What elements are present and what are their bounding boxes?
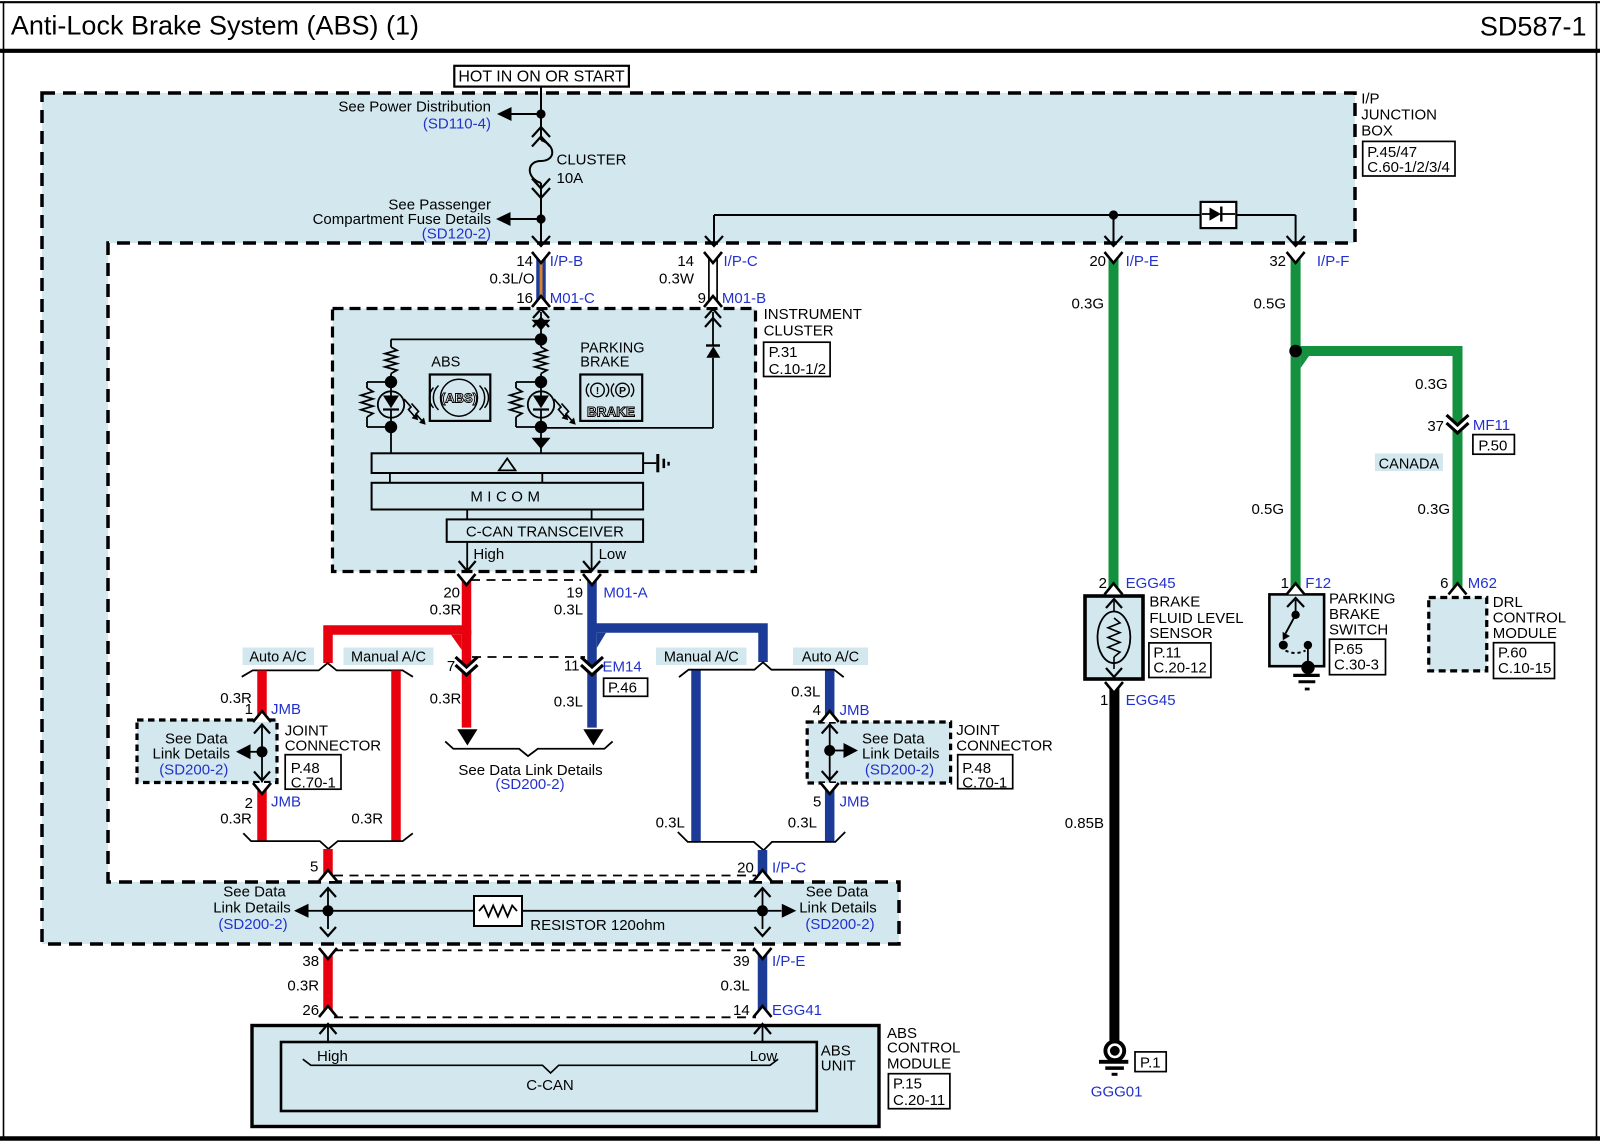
arrow into connector I/P-B bbox=[532, 236, 550, 246]
wire parking lamp drop bbox=[540, 339, 542, 347]
connector 14 EGG41 notch bbox=[754, 1006, 772, 1017]
sensor resistor ellipse bbox=[1098, 612, 1131, 664]
abs lamp rays bbox=[404, 399, 416, 418]
LED abs indicator bbox=[378, 391, 404, 417]
svg-text:11: 11 bbox=[564, 658, 580, 675]
micom to ccan legs bbox=[466, 510, 468, 520]
svg-text:2: 2 bbox=[1099, 575, 1107, 592]
connector 20 I/P-C notch bottom bbox=[754, 870, 772, 881]
svg-text:SWITCH: SWITCH bbox=[1329, 622, 1388, 639]
connector 4 JMB notch bbox=[821, 711, 839, 722]
wire 0.3L manual branch bbox=[691, 671, 701, 842]
svg-text:6: 6 bbox=[1440, 575, 1448, 592]
svg-text:0.3R: 0.3R bbox=[430, 601, 462, 618]
svg-text:39: 39 bbox=[733, 953, 750, 970]
svg-text:JMB: JMB bbox=[840, 794, 870, 811]
JMB right arrow line bbox=[834, 750, 844, 752]
parking parallel resistor branch bbox=[516, 381, 537, 383]
node fuse top junction bbox=[536, 109, 545, 118]
svg-text:20: 20 bbox=[443, 584, 460, 601]
HOT IN ON OR START box bbox=[454, 66, 629, 87]
BRAKE telltale emblem bbox=[591, 383, 605, 397]
wire diode to parking node bbox=[712, 358, 714, 428]
wire 0.3R manual branch bbox=[391, 671, 401, 842]
sensor resistor element bbox=[1108, 618, 1120, 657]
svg-text:C.60-1/2/3/4: C.60-1/2/3/4 bbox=[1367, 159, 1450, 176]
connector plane EM14 bbox=[472, 656, 585, 658]
terminating resistor net line bbox=[328, 910, 763, 912]
svg-text:(SD200-2): (SD200-2) bbox=[865, 761, 934, 778]
svg-text:BRAKE: BRAKE bbox=[580, 355, 629, 371]
switch ground stud bbox=[1301, 661, 1314, 674]
wire drop to I/P-F bbox=[1295, 215, 1297, 244]
right see-data arrow bbox=[782, 904, 797, 918]
Auto A/C label right bbox=[793, 648, 868, 666]
svg-text:DRL: DRL bbox=[1493, 594, 1523, 611]
svg-text:INSTRUMENT: INSTRUMENT bbox=[764, 306, 862, 323]
wire cluster lamp bus bbox=[391, 338, 541, 340]
wire 0.3G I/P-E to EGG45 bbox=[1109, 252, 1119, 594]
svg-text:0.3W: 0.3W bbox=[659, 271, 695, 288]
JMB left arrow line bbox=[250, 751, 258, 753]
data link underbrace bbox=[445, 741, 612, 756]
svg-text:2: 2 bbox=[245, 795, 253, 812]
svg-text:CONTROL: CONTROL bbox=[1493, 610, 1566, 627]
svg-text:C.20-11: C.20-11 bbox=[893, 1092, 945, 1109]
wire 0.5G I/P-F to F12 bbox=[1291, 252, 1301, 594]
svg-text:0.3L: 0.3L bbox=[554, 601, 583, 618]
connector 14 I/P-B notch bbox=[532, 252, 550, 263]
svg-text:Link Details: Link Details bbox=[862, 745, 940, 762]
sensor internal top arrow bbox=[1106, 599, 1122, 608]
connector 1 F12 notch bbox=[1287, 583, 1305, 594]
svg-text:0.3L: 0.3L bbox=[788, 815, 817, 832]
ground GGG01 symbol bbox=[1105, 1041, 1124, 1060]
diode D1 box bbox=[1201, 202, 1237, 228]
svg-text:CLUSTER: CLUSTER bbox=[557, 152, 627, 169]
JMB left exit chevron bbox=[254, 772, 270, 781]
svg-text:4: 4 bbox=[813, 702, 821, 719]
BRAKE telltale box bbox=[580, 375, 642, 421]
left JMB ref box bbox=[285, 755, 341, 790]
svg-text:Link Details: Link Details bbox=[799, 899, 877, 916]
resistor abs lamp bbox=[385, 347, 397, 374]
wire parking resistor to led bbox=[540, 374, 542, 383]
connector 11 EM14 inline bbox=[581, 657, 603, 675]
JMB right exit chevron bbox=[822, 771, 838, 780]
wire parking led down bbox=[540, 427, 542, 438]
svg-text:(SD200-2): (SD200-2) bbox=[495, 776, 564, 793]
svg-text:CONNECTOR: CONNECTOR bbox=[956, 738, 1053, 755]
wire drop to I/P-E bbox=[1113, 215, 1115, 244]
red option merge bracket bbox=[243, 833, 412, 849]
wire 0.3R auto branch to JMB1 bbox=[257, 671, 267, 723]
wire fuse output down to I/P-B bbox=[540, 223, 542, 244]
svg-text:M01-C: M01-C bbox=[550, 290, 595, 307]
svg-text:BRAKE: BRAKE bbox=[587, 405, 635, 420]
svg-text:EGG41: EGG41 bbox=[772, 1002, 822, 1019]
wire 0.3W I/P-C to M01-B (white) bbox=[709, 252, 717, 307]
ABS control module outer box bbox=[252, 1026, 879, 1127]
blue data link arrow bbox=[583, 729, 603, 745]
DRL control module box bbox=[1429, 598, 1487, 671]
svg-text:See Power Distribution: See Power Distribution bbox=[338, 98, 491, 115]
ABS unit inner box bbox=[281, 1042, 817, 1111]
fuse bottom clip chevrons bbox=[532, 179, 550, 189]
JMB joint internal wire right bbox=[829, 724, 831, 782]
page top border bbox=[0, 1, 1600, 3]
ABS module entry arrow right bbox=[754, 1024, 771, 1034]
blue option split bracket bbox=[679, 662, 844, 677]
connector 2 JMB notch bbox=[253, 783, 271, 794]
resistor bar up arrow right bbox=[755, 888, 771, 897]
JMB left entry chevron bbox=[254, 725, 270, 734]
connector 5 JMB notch bbox=[821, 783, 839, 794]
wire 0.3R to connector 7 bbox=[462, 630, 472, 666]
svg-text:EM14: EM14 bbox=[603, 659, 642, 676]
wire ccan Low out bbox=[591, 542, 593, 569]
wire abs lamp drop bbox=[390, 339, 392, 347]
connector 6 M62 notch bbox=[1449, 583, 1467, 594]
connector 16 M01-C notch bbox=[532, 296, 550, 307]
JMB right arrow bbox=[844, 743, 859, 758]
connector 14 I/P-C notch bbox=[704, 252, 722, 263]
svg-text:P: P bbox=[619, 385, 626, 397]
switch closed contact bbox=[1304, 641, 1312, 649]
switch internal top arrow bbox=[1287, 598, 1304, 607]
IP junction box ref box bbox=[1363, 141, 1455, 176]
svg-text:Link Details: Link Details bbox=[213, 899, 291, 916]
ABS telltale emblem bbox=[441, 379, 478, 416]
svg-text:14: 14 bbox=[677, 253, 694, 270]
switch ref box bbox=[1330, 639, 1386, 675]
connector 5 notch bbox=[319, 870, 337, 881]
node JMB left junction bbox=[257, 746, 268, 757]
svg-text:CONNECTOR: CONNECTOR bbox=[285, 737, 382, 754]
wire 0.3L merged to connector 20 bbox=[758, 850, 768, 881]
svg-text:ABS: ABS bbox=[431, 354, 460, 370]
connector 32 I/P-F notch bbox=[1287, 252, 1305, 263]
cluster ref box bbox=[764, 342, 831, 376]
connector 2 EGG45 notch bbox=[1105, 583, 1123, 594]
svg-text:EGG45: EGG45 bbox=[1126, 692, 1176, 709]
svg-text:PARKING: PARKING bbox=[1329, 591, 1395, 608]
svg-text:C-CAN TRANSCEIVER: C-CAN TRANSCEIVER bbox=[466, 523, 624, 540]
wire 0.85B EGG45 to GGG01 bbox=[1109, 682, 1119, 1042]
parking brake switch box bbox=[1269, 594, 1324, 666]
brake fluid level sensor box bbox=[1085, 596, 1143, 679]
LED parking indicator bbox=[528, 391, 554, 417]
svg-text:C.10-15: C.10-15 bbox=[1498, 660, 1551, 677]
svg-text:MICOM: MICOM bbox=[470, 488, 544, 505]
wire M01-B to diode bbox=[712, 312, 714, 346]
wire 0.3L auto branch to JMB4 bbox=[825, 671, 835, 723]
node green branch junction bbox=[1289, 345, 1302, 358]
node parking led bottom bbox=[535, 421, 547, 433]
svg-text:10A: 10A bbox=[557, 170, 584, 187]
ground parking brake switch bbox=[1293, 674, 1320, 677]
fuse bottom lead bbox=[540, 183, 542, 215]
module ref box bbox=[888, 1074, 950, 1109]
node cluster feed split bbox=[535, 333, 547, 345]
red tee fillet bbox=[451, 635, 462, 650]
svg-text:0.3R: 0.3R bbox=[351, 811, 383, 828]
node I/P-E branch junction bbox=[1109, 210, 1118, 219]
svg-text:7: 7 bbox=[447, 658, 455, 675]
resistor abs parallel bbox=[361, 388, 373, 417]
svg-text:See Data: See Data bbox=[806, 883, 869, 900]
svg-text:P.50: P.50 bbox=[1478, 438, 1507, 455]
connector 1 EGG45 notch black wire bbox=[1105, 682, 1123, 693]
wire 0.3L branch to auto-manual bbox=[592, 628, 763, 662]
wire to see-power-distribution bbox=[511, 113, 537, 115]
resistor parking lamp bbox=[535, 347, 547, 374]
parking lamp rays bbox=[554, 399, 566, 418]
svg-text:BOX: BOX bbox=[1361, 122, 1393, 139]
page left border bbox=[3, 3, 5, 1139]
P.50 ref box bbox=[1473, 435, 1515, 455]
svg-text:1: 1 bbox=[1281, 575, 1289, 592]
svg-text:0.85B: 0.85B bbox=[1065, 815, 1104, 832]
connector 20 M01-A red notch bbox=[458, 574, 476, 585]
svg-text:M62: M62 bbox=[1468, 575, 1497, 592]
cluster entry arrow M01-C bbox=[533, 309, 549, 318]
svg-text:0.3R: 0.3R bbox=[220, 811, 252, 828]
wire 0.3L/O I/P-B to M01-C (blue) bbox=[536, 252, 546, 307]
svg-text:(SD200-2): (SD200-2) bbox=[805, 916, 874, 933]
svg-text:F12: F12 bbox=[1305, 575, 1331, 592]
node resistor right bbox=[757, 905, 768, 916]
node JMB right junction bbox=[824, 745, 835, 756]
wire 0.3L 11 to data link arrow bbox=[587, 664, 597, 728]
right joint connector detail box bbox=[807, 722, 950, 783]
svg-text:14: 14 bbox=[733, 1002, 750, 1019]
JMB left arrow bbox=[236, 744, 251, 759]
svg-text:I/P-F: I/P-F bbox=[1317, 253, 1350, 270]
resistor bar down arrow left bbox=[327, 916, 329, 929]
svg-text:0.5G: 0.5G bbox=[1253, 296, 1286, 313]
fuse top clip chevrons bbox=[532, 127, 550, 137]
svg-text:0.3L: 0.3L bbox=[554, 693, 583, 710]
connector 7 inline bbox=[456, 657, 478, 675]
connector 39 I/P-E notch bbox=[754, 948, 772, 959]
connector plane M01-A bbox=[471, 579, 581, 581]
svg-text:C.20-12: C.20-12 bbox=[1153, 660, 1206, 677]
svg-text:P.65: P.65 bbox=[1334, 641, 1363, 658]
parking to micom triangle bbox=[532, 438, 551, 449]
svg-text:P.1: P.1 bbox=[1140, 1055, 1161, 1072]
wire 0.3R 38 to 26 bbox=[323, 948, 333, 1017]
page right border bbox=[1596, 3, 1598, 1139]
resistor bar down arrow right bbox=[762, 916, 764, 929]
svg-text:M01-A: M01-A bbox=[603, 584, 647, 601]
svg-text:0.3G: 0.3G bbox=[1415, 376, 1448, 393]
switch pivot contact bbox=[1291, 611, 1299, 619]
resistor left arrow line bbox=[308, 910, 323, 912]
svg-text:20: 20 bbox=[1089, 253, 1106, 270]
connector 9 M01-B notch bbox=[704, 296, 722, 307]
wire internal bus bbox=[714, 214, 1296, 216]
wire drop to I/P-C bbox=[713, 215, 715, 244]
resistor right arrow line bbox=[768, 910, 782, 912]
diode D2 cluster bbox=[706, 344, 720, 346]
svg-text:20: 20 bbox=[737, 860, 754, 877]
cluster entry arrow M01-B bbox=[705, 309, 721, 318]
blue tee fillet bbox=[597, 633, 606, 648]
wire 0.3L cluster Low branch bbox=[587, 574, 597, 666]
svg-text:(SD120-2): (SD120-2) bbox=[422, 226, 491, 243]
switch blade bbox=[1286, 615, 1296, 634]
svg-text:1: 1 bbox=[1100, 692, 1108, 709]
svg-text:0.5G: 0.5G bbox=[1251, 501, 1284, 518]
svg-text:0.3R: 0.3R bbox=[287, 978, 319, 995]
svg-text:C.70-1: C.70-1 bbox=[291, 774, 336, 791]
green branch fillet bbox=[1301, 356, 1309, 368]
svg-text:BRAKE: BRAKE bbox=[1149, 594, 1200, 611]
svg-text:1: 1 bbox=[245, 701, 253, 718]
switch throw dashed arc bbox=[1286, 651, 1306, 654]
connector 26 notch bbox=[319, 1006, 337, 1017]
svg-text:0.3L: 0.3L bbox=[791, 684, 820, 701]
svg-text:0.3L: 0.3L bbox=[656, 815, 685, 832]
blue option merge bracket bbox=[678, 832, 845, 850]
JMB right entry chevron bbox=[822, 725, 838, 734]
svg-text:Link Details: Link Details bbox=[153, 745, 231, 762]
svg-text:(ABS): (ABS) bbox=[441, 391, 477, 406]
svg-text:See Data: See Data bbox=[223, 883, 286, 900]
svg-text:MF11: MF11 bbox=[1473, 417, 1510, 434]
svg-text:JMB: JMB bbox=[840, 702, 870, 719]
C-CAN brace bbox=[303, 1059, 778, 1073]
svg-text:Manual A/C: Manual A/C bbox=[664, 649, 739, 665]
svg-text:SD587-1: SD587-1 bbox=[1480, 12, 1587, 42]
ABS module entry arrow left bbox=[320, 1024, 337, 1034]
svg-text:19: 19 bbox=[566, 584, 583, 601]
svg-text:I/P-B: I/P-B bbox=[550, 253, 583, 270]
svg-text:JMB: JMB bbox=[271, 701, 301, 718]
arrow into connector I/P-F bbox=[1287, 236, 1305, 246]
svg-text:0.3L: 0.3L bbox=[720, 978, 749, 995]
Manual A/C label left bbox=[344, 648, 434, 666]
svg-text:RESISTOR 120ohm: RESISTOR 120ohm bbox=[530, 917, 665, 934]
fuse element squiggle bbox=[530, 140, 553, 183]
instrument cluster box bbox=[333, 309, 756, 572]
resistor bar up arrow left bbox=[320, 888, 336, 897]
svg-text:Auto A/C: Auto A/C bbox=[802, 649, 859, 665]
wire to passenger fuse details bbox=[510, 218, 537, 220]
svg-text:0.3L/O: 0.3L/O bbox=[489, 271, 534, 288]
title separator thick line bbox=[0, 49, 1600, 53]
left joint connector detail box bbox=[137, 720, 277, 783]
sensor internal bottom arrow bbox=[1113, 657, 1115, 669]
wire 0.3R merged to connector 5 bbox=[323, 849, 333, 881]
red option split bracket bbox=[242, 663, 413, 677]
connector 1 JMB notch bbox=[253, 711, 271, 722]
bus box triangle bbox=[499, 459, 516, 471]
node resistor left bbox=[323, 905, 334, 916]
wire hot feed to fuse bbox=[540, 86, 542, 110]
svg-text:Auto A/C: Auto A/C bbox=[249, 649, 306, 665]
svg-text:EGG45: EGG45 bbox=[1126, 575, 1176, 592]
svg-text:Manual A/C: Manual A/C bbox=[351, 649, 426, 665]
svg-text:I/P: I/P bbox=[1361, 91, 1379, 108]
bus to micom legs bbox=[389, 473, 391, 483]
connector 37 MF11 inline bbox=[1447, 415, 1469, 433]
svg-text:SENSOR: SENSOR bbox=[1149, 625, 1213, 642]
svg-text:32: 32 bbox=[1269, 253, 1286, 270]
MICOM box bbox=[372, 483, 643, 510]
I/P junction box region bbox=[42, 93, 1355, 944]
svg-text:C.30-3: C.30-3 bbox=[1334, 657, 1379, 674]
wire abs led to micom bus bbox=[390, 427, 392, 453]
wire 0.3L 39 to 14 bbox=[758, 948, 768, 1017]
abs parallel resistor branch bbox=[367, 381, 387, 383]
svg-text:(SD200-2): (SD200-2) bbox=[159, 761, 228, 778]
svg-text:MODULE: MODULE bbox=[1493, 625, 1557, 642]
svg-text:HOT IN ON OR START: HOT IN ON OR START bbox=[458, 69, 624, 86]
wire 0.3R JMB2 down bbox=[257, 783, 267, 841]
Manual A/C label right bbox=[656, 648, 747, 666]
sensor ref box bbox=[1149, 643, 1211, 678]
wire parking triangle to bus bbox=[540, 446, 542, 453]
svg-text:BRAKE: BRAKE bbox=[1329, 606, 1380, 623]
svg-text:CONTROL: CONTROL bbox=[887, 1039, 960, 1056]
switch open contact bbox=[1279, 641, 1288, 650]
fuse F CLUSTER 10A top lead bbox=[540, 118, 542, 140]
svg-text:High: High bbox=[317, 1048, 348, 1065]
svg-text:High: High bbox=[473, 546, 504, 563]
arrow to passenger fuse details bbox=[496, 212, 511, 226]
svg-text:JOINT: JOINT bbox=[956, 722, 999, 739]
svg-text:P.46: P.46 bbox=[608, 680, 637, 697]
node fuse output junction bbox=[536, 214, 545, 223]
svg-text:I/P-C: I/P-C bbox=[724, 253, 758, 270]
svg-text:P.60: P.60 bbox=[1498, 644, 1527, 661]
left see-data arrow bbox=[294, 904, 309, 918]
CANADA label bbox=[1375, 453, 1443, 471]
svg-text:Anti-Lock Brake System (ABS) (: Anti-Lock Brake System (ABS) (1) bbox=[11, 11, 419, 41]
svg-text:14: 14 bbox=[516, 253, 533, 270]
svg-text:5: 5 bbox=[813, 794, 821, 811]
wire 0.3L JMB5 down bbox=[825, 783, 835, 841]
C-CAN transceiver box bbox=[447, 519, 643, 542]
connector plane EGG41 bbox=[334, 1016, 756, 1018]
ABS telltale box bbox=[430, 375, 491, 421]
connector plane I/P-E bottom bbox=[334, 949, 756, 951]
svg-text:(SD200-2): (SD200-2) bbox=[218, 916, 287, 933]
svg-text:Low: Low bbox=[750, 1048, 778, 1065]
svg-text:CLUSTER: CLUSTER bbox=[764, 322, 834, 339]
svg-text:JUNCTION: JUNCTION bbox=[1361, 107, 1437, 124]
svg-text:I/P-E: I/P-E bbox=[1126, 253, 1159, 270]
cluster feed triangle bbox=[532, 320, 551, 331]
P.1 ref box bbox=[1135, 1052, 1166, 1072]
svg-text:JMB: JMB bbox=[271, 794, 301, 811]
svg-text:0.3G: 0.3G bbox=[1417, 501, 1450, 518]
wire 0.3G branch to M62 bbox=[1296, 351, 1458, 594]
cluster logic bus box bbox=[372, 453, 643, 473]
svg-text:C-CAN: C-CAN bbox=[526, 1077, 574, 1094]
connector 19 M01-A notch bbox=[583, 574, 601, 585]
svg-text:C.70-1: C.70-1 bbox=[962, 774, 1007, 791]
node parking led top bbox=[535, 376, 547, 388]
diode D1 symbol bbox=[1210, 208, 1222, 221]
node abs led top bbox=[385, 376, 397, 388]
svg-text:I/P-C: I/P-C bbox=[772, 860, 806, 877]
switch blade arrowhead bbox=[1283, 632, 1290, 640]
connector plane I/P-C bottom bbox=[334, 875, 756, 877]
wire abs resistor to led bbox=[390, 374, 392, 383]
